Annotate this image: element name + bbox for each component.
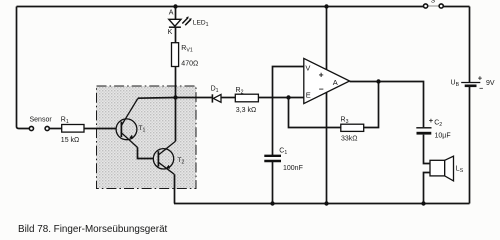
top supply rail [17, 6, 470, 8]
node top power [324, 4, 328, 8]
svg-text:S: S [431, 0, 436, 4]
op-amp top power wire [326, 7, 328, 70]
node collector junction [173, 95, 177, 99]
transistor T1 [116, 99, 145, 148]
op-amp bottom power wire [326, 92, 328, 203]
svg-text:3,3 kΩ: 3,3 kΩ [236, 107, 256, 114]
op-amp U1 [304, 58, 350, 103]
wire C1 to bottom rail [272, 162, 274, 204]
resistor Rv1 470 ohm [172, 43, 199, 68]
svg-text:E: E [306, 90, 311, 99]
svg-text:10µF: 10µF [435, 132, 451, 139]
svg-text:Sensor: Sensor [30, 117, 53, 124]
node speaker ground [421, 201, 425, 205]
wire R2 to op-amp E input [258, 97, 303, 99]
wire T2 collector to node [175, 98, 177, 142]
wire C2 to speaker [424, 135, 431, 164]
transistor T2 [153, 141, 184, 174]
battery UB [451, 74, 495, 93]
darlington shaded box [97, 86, 197, 189]
capacitor C1 100nF [264, 148, 303, 172]
svg-text:–: – [319, 83, 324, 93]
wire T2 emitter to bottom rail [174, 174, 176, 203]
svg-text:+: + [478, 74, 483, 83]
bottom rail [174, 203, 470, 205]
wire R3 to output [364, 82, 379, 128]
capacitor C2 10uF [416, 116, 450, 139]
wire node to D1 [176, 97, 212, 99]
svg-text:Bild 78. Finger-Morseübungsger: Bild 78. Finger-Morseübungsgerät [18, 224, 168, 235]
wire T1 collector to node [138, 97, 176, 100]
wire speaker to bottom rail [424, 173, 431, 204]
LED1 [168, 10, 209, 36]
diode D1 [211, 85, 221, 102]
resistor R3 33k [341, 116, 364, 142]
node output feedback [376, 79, 380, 83]
resistor R1 15k [61, 117, 84, 145]
svg-text:15 kΩ: 15 kΩ [61, 137, 79, 144]
wire Rv1 to node [175, 67, 177, 98]
right supply wire [469, 7, 471, 204]
wire V input branch [273, 67, 304, 156]
svg-text:100nF: 100nF [283, 165, 303, 172]
node bottom power [324, 201, 328, 205]
svg-text:9V: 9V [486, 80, 495, 87]
node top rail [173, 4, 177, 8]
resistor R2 3.3k [235, 87, 258, 114]
wire T1 emitter to T2 base [138, 148, 154, 159]
left wire to sensor [17, 7, 30, 129]
node C1 ground [270, 201, 274, 205]
wire R1 to T1 base [84, 128, 116, 130]
wire sensor to R1 [49, 128, 61, 130]
svg-text:A: A [333, 78, 338, 87]
svg-text:470Ω: 470Ω [181, 61, 198, 68]
loudspeaker Ls [430, 156, 464, 181]
wire op-amp output [350, 82, 424, 128]
svg-text:K: K [168, 29, 173, 36]
LED branch wire [175, 7, 177, 43]
svg-text:V: V [305, 64, 310, 73]
node E input junction [286, 95, 290, 99]
svg-text:33kΩ: 33kΩ [341, 136, 358, 143]
svg-text:+: + [319, 69, 324, 79]
svg-text:+: + [429, 116, 434, 125]
sensor contacts [29, 117, 52, 131]
switch S [424, 0, 444, 8]
svg-text:A: A [169, 10, 174, 17]
wire D1 to R2 [221, 97, 235, 99]
svg-text:–: – [479, 85, 483, 92]
wire feedback E to R3 [289, 98, 341, 128]
